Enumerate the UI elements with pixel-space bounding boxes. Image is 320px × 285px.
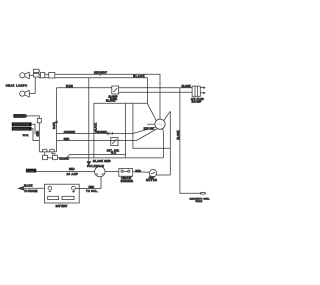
svg-text:TO LT.: TO LT. [23,135,29,137]
headlamp upper [20,72,30,79]
wire H2 to key switch diagonal [39,78,147,103]
svg-text:HEAD LAMPS: HEAD LAMPS [6,83,28,87]
bottom connector A [43,152,48,160]
wire V x88.8 [88,78,90,158]
svg-text:RED: RED [135,169,141,173]
svg-text:FUSE: FUSE [27,169,35,173]
wire ammeter right [157,174,171,176]
magneto terminal [201,192,206,194]
wire H1 lamp feed to key switch [39,74,160,119]
inline connector on L-A [107,132,113,135]
connector plug B on lamp feed [49,72,55,78]
svg-text:SOLENOID: SOLENOID [87,164,104,168]
svg-text:BLACK: BLACK [24,184,33,188]
svg-text:TO SOL.: TO SOL. [86,189,98,193]
svg-text:RED/WHT: RED/WHT [94,71,107,75]
wire V x125.5 [125,103,127,158]
wire L-B red [57,140,137,142]
harness label ORANGE [13,114,39,118]
harness label RED/WHITE [12,122,40,133]
svg-text:BLACK: BLACK [60,156,69,160]
connector housing bottom bar with pins [39,149,56,152]
svg-text:BLACK GND: BLACK GND [93,159,111,163]
svg-text:3.5 AMP: 3.5 AMP [192,100,202,104]
svg-text:RED: RED [89,185,95,189]
svg-text:METER: METER [146,178,157,182]
svg-text:RED: RED [64,137,70,141]
wire orange drop to bottom bar [38,123,40,152]
wire H4 to alternator [119,91,193,93]
svg-text:KEY SW.: KEY SW. [144,126,155,130]
svg-text:ORANGE: ORANGE [64,130,76,134]
junction tick on H1 [99,73,101,76]
svg-text:BLACK: BLACK [133,74,145,78]
svg-text:WIRE: WIRE [196,201,203,203]
wire H3 charge line [57,87,193,89]
wire battery plus to solenoid [75,177,101,189]
battery [44,184,79,203]
wire V x132.9 drop [132,103,134,148]
alternator connector [192,86,205,96]
fuse label [26,169,36,173]
svg-text:20 AMP: 20 AMP [67,172,79,176]
svg-text:ORANGE: ORANGE [95,130,107,134]
connector plug A on lamp feed [40,73,44,78]
connector tick on right vertical [55,121,58,122]
battery ground arrow [18,187,44,190]
wire breaker to ammeter [133,171,150,173]
ammeter [149,170,156,177]
svg-text:RED: RED [69,167,75,171]
wire solenoid to breaker [105,171,119,173]
wire fuse to solenoid [36,171,94,173]
svg-text:BATTERY: BATTERY [56,204,68,208]
wire H5 black to key switch [94,103,156,120]
wire L-A orange [57,132,134,134]
svg-text:ORANGE: ORANGE [14,114,26,118]
headlamp connector cluster [29,69,40,93]
svg-text:RED/WHITE: RED/WHITE [13,123,29,127]
headlamp lower [20,90,30,97]
harness label BROWN/WHITE [12,127,40,141]
ground symbol [87,158,91,165]
interlock switch [111,138,118,146]
inline square connector on orange drop [37,118,41,122]
svg-text:BLACK: BLACK [106,99,115,103]
svg-text:BLUE: BLUE [66,84,73,88]
wire flag bottom [133,147,170,149]
circuit breaker [119,169,133,177]
wire V alternator ground drop [180,88,201,194]
solenoid [95,166,105,176]
bottom connector B [47,152,163,160]
svg-text:BLACK: BLACK [182,84,191,88]
svg-text:BLACK: BLACK [176,130,180,139]
fuse box F1 on charge line [112,86,119,94]
svg-text:BREAKER: BREAKER [121,179,134,183]
svg-text:BRN/WHITE: BRN/WHITE [13,127,29,131]
wire jog up to second interlock line [67,154,126,158]
svg-text:BLUE: BLUE [52,122,56,129]
svg-text:MAGNETO GND.: MAGNETO GND. [190,197,211,200]
key switch [133,111,170,175]
wire right vertical from charge line [56,88,58,152]
wire V x93.9 [93,103,95,158]
svg-text:TO FRAME: TO FRAME [24,189,38,193]
